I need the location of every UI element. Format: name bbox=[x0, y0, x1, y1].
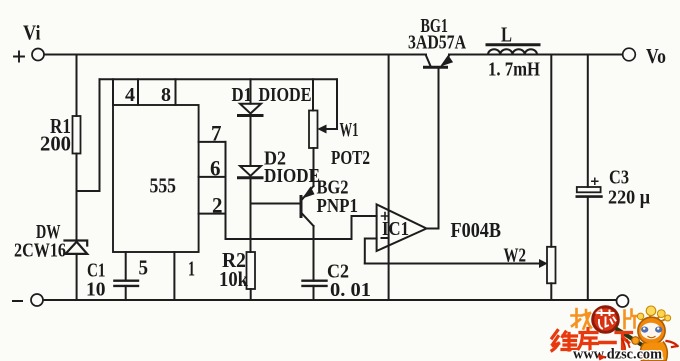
svg-text:200: 200 bbox=[40, 132, 71, 156]
svg-text:Vi: Vi bbox=[23, 21, 41, 45]
terminal Vi- bbox=[31, 294, 43, 306]
wire pin 1 to bottom rail bbox=[173, 252, 175, 300]
wire DW to bottom rail bbox=[76, 254, 78, 300]
wire BG2 emitter to W1 bbox=[313, 148, 315, 186]
wire R1 to DW bbox=[76, 154, 78, 240]
wire C1 to bottom rail bbox=[125, 286, 127, 300]
wire pin 5 bbox=[125, 252, 127, 281]
wire C3 drop bbox=[587, 55, 589, 188]
svg-text:POT2: POT2 bbox=[331, 147, 370, 169]
svg-text:1. 7mH: 1. 7mH bbox=[488, 59, 540, 81]
magnifier handle bbox=[618, 330, 643, 346]
svg-text:DIODE: DIODE bbox=[259, 84, 312, 106]
terminal Vo+ bbox=[623, 48, 636, 61]
watermark mascot bbox=[622, 306, 678, 361]
svg-text:IC1: IC1 bbox=[382, 218, 409, 240]
pin 4/8 divider bbox=[137, 79, 139, 105]
op-amp plus sign bbox=[382, 213, 389, 220]
terminal Vi+ bbox=[32, 49, 44, 61]
svg-text:0. 01: 0. 01 bbox=[330, 279, 371, 301]
BG1 emitter arrow bbox=[442, 56, 453, 66]
svg-text:555: 555 bbox=[150, 174, 177, 198]
svg-text:www.dzsc.com: www.dzsc.com bbox=[573, 347, 662, 361]
wire D1 top bbox=[250, 79, 252, 103]
W2 arrowhead bbox=[540, 260, 547, 267]
wire D2 cathode to BG2 base bbox=[251, 203, 300, 205]
svg-text:10k: 10k bbox=[219, 267, 248, 291]
watermark red ribbon bbox=[598, 355, 608, 361]
pin 2 stub bbox=[199, 213, 226, 215]
pin 7 stub bbox=[199, 141, 226, 143]
inductor L coils bbox=[488, 49, 537, 54]
op-amp IC1 triangle bbox=[377, 204, 427, 251]
wire left riser to ref line bbox=[99, 79, 101, 191]
svg-text:W1: W1 bbox=[340, 119, 359, 141]
svg-text:Vo: Vo bbox=[646, 44, 666, 68]
wire op-amp output bbox=[427, 67, 439, 228]
wire C3 to bottom rail bbox=[587, 197, 589, 300]
resistor R1 bbox=[73, 116, 81, 154]
svg-text:3AD57A: 3AD57A bbox=[408, 32, 466, 54]
wire bottom rail bbox=[44, 299, 617, 301]
resistor R2 bbox=[247, 252, 256, 289]
svg-text:220 μ: 220 μ bbox=[608, 187, 651, 209]
svg-text:7: 7 bbox=[211, 121, 222, 146]
capacitor C2 bbox=[303, 281, 327, 286]
svg-text:F004B: F004B bbox=[451, 218, 502, 242]
C3 plus mark bbox=[592, 178, 598, 184]
svg-text:2CW16: 2CW16 bbox=[14, 240, 66, 262]
svg-text:4: 4 bbox=[125, 84, 135, 106]
diode D1 bbox=[240, 104, 261, 114]
pin 4 box bbox=[112, 79, 114, 105]
op-amp minus sign bbox=[382, 237, 389, 239]
wire W2 pot to bottom rail bbox=[550, 283, 552, 300]
wire D1 to D2 bbox=[250, 116, 252, 167]
transistor BG1 bbox=[425, 66, 447, 69]
svg-text:PNP1: PNP1 bbox=[317, 195, 359, 217]
svg-text:8: 8 bbox=[161, 84, 171, 106]
wire top rail right bbox=[449, 54, 623, 56]
wire reference line y79 bbox=[100, 78, 338, 80]
diode D2 bbox=[240, 166, 261, 176]
watermark char pian (chip) orange bbox=[625, 310, 639, 329]
svg-text:L: L bbox=[501, 23, 512, 47]
BG2 emitter arrow bbox=[304, 188, 314, 198]
watermark magnifier with xin bbox=[593, 307, 642, 345]
zener diode DW bbox=[65, 241, 88, 254]
inductor L bar bbox=[487, 43, 539, 46]
wire node line to op-amp bbox=[226, 216, 377, 239]
node junction R1-DW to 555 bbox=[77, 190, 100, 192]
svg-text:DIODE: DIODE bbox=[264, 165, 320, 187]
potentiometer W1 top wire bbox=[312, 79, 314, 110]
capacitor C3 polarized bbox=[577, 187, 601, 192]
label plus bbox=[14, 52, 24, 62]
watermark group bbox=[552, 306, 678, 361]
svg-text:10: 10 bbox=[86, 279, 106, 301]
wire top rail left bbox=[45, 54, 427, 56]
svg-text:W2: W2 bbox=[504, 245, 527, 267]
W1 wiper arrow bbox=[324, 128, 337, 130]
char wei bbox=[552, 331, 559, 351]
svg-text:2: 2 bbox=[212, 193, 223, 218]
svg-text:D1: D1 bbox=[232, 84, 253, 106]
pin 8 box right bbox=[175, 79, 177, 105]
capacitor C1 bbox=[114, 281, 138, 286]
terminal Vo- redrawn on top bbox=[617, 295, 629, 307]
wire C2 to bottom rail bbox=[313, 286, 315, 300]
svg-text:6: 6 bbox=[210, 156, 221, 181]
char yi bbox=[600, 341, 615, 345]
svg-text:5: 5 bbox=[139, 256, 149, 280]
watermark text weikuyixia red bbox=[552, 329, 632, 351]
watermark char zhao (find) orange bbox=[572, 309, 592, 329]
pin 6 stub bbox=[199, 176, 226, 178]
wire R2 to bottom rail bbox=[250, 289, 252, 300]
wire D2 to R2 bbox=[250, 178, 252, 252]
potentiometer W1 bbox=[309, 111, 318, 149]
svg-text:1: 1 bbox=[188, 257, 195, 281]
wire op-amp power line bbox=[388, 55, 390, 301]
wire W1 wiper riser bbox=[336, 79, 338, 129]
wire W2 feedback line bbox=[365, 263, 541, 265]
wire R1 top bbox=[76, 55, 78, 117]
wire pins 7-6-2 common bbox=[225, 142, 227, 239]
char ku bbox=[578, 329, 598, 351]
svg-text:C3: C3 bbox=[609, 167, 629, 189]
char xia bbox=[616, 333, 632, 351]
wire inverting input bbox=[365, 239, 377, 264]
minus label left bottom bbox=[13, 300, 22, 302]
wire W2 pot drop bbox=[550, 55, 552, 247]
potentiometer W2 bbox=[547, 247, 556, 283]
transistor BG2 bbox=[300, 197, 303, 217]
wire BG2 collector down bbox=[313, 226, 315, 281]
IC U1 555 body bbox=[113, 105, 199, 252]
